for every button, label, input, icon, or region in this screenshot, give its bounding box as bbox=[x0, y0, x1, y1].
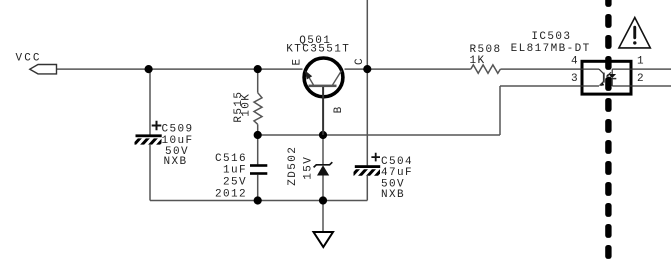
svg-text:C509: C509 bbox=[162, 124, 194, 136]
svg-text:47uF: 47uF bbox=[381, 167, 413, 179]
svg-text:1K: 1K bbox=[470, 55, 486, 67]
svg-text:3: 3 bbox=[571, 73, 579, 85]
svg-text:25V: 25V bbox=[223, 176, 247, 188]
svg-text:C: C bbox=[354, 57, 366, 65]
svg-text:IC503: IC503 bbox=[531, 31, 571, 43]
svg-text:2012: 2012 bbox=[215, 188, 247, 200]
svg-text:1uF: 1uF bbox=[223, 165, 247, 177]
svg-text:4: 4 bbox=[571, 56, 579, 68]
svg-text:VCC: VCC bbox=[16, 52, 42, 64]
svg-text:KTC3551T: KTC3551T bbox=[286, 44, 350, 56]
svg-text:C516: C516 bbox=[215, 153, 247, 165]
svg-text:B: B bbox=[333, 105, 345, 113]
svg-text:1: 1 bbox=[637, 56, 645, 68]
svg-text:10K: 10K bbox=[240, 93, 252, 117]
svg-text:EL817MB-DT: EL817MB-DT bbox=[511, 43, 591, 55]
svg-text:R508: R508 bbox=[470, 44, 502, 56]
svg-text:NXB: NXB bbox=[381, 189, 405, 201]
svg-text:E: E bbox=[292, 57, 304, 65]
svg-text:ZD502: ZD502 bbox=[287, 146, 299, 186]
svg-text:NXB: NXB bbox=[164, 156, 188, 168]
svg-text:2: 2 bbox=[637, 73, 645, 85]
svg-text:15V: 15V bbox=[303, 156, 315, 180]
